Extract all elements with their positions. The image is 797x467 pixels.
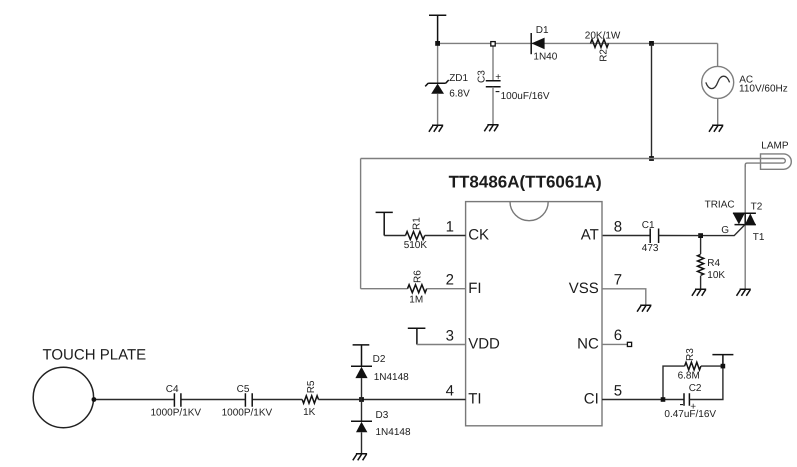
AC source 110V/60Hz	[702, 66, 734, 98]
svg-text:C4: C4	[166, 384, 179, 395]
wire: second rail	[361, 158, 761, 160]
diode D2 1N4148	[351, 366, 372, 399]
node: open square at C3 / top rail	[491, 42, 495, 46]
svg-text:C2: C2	[689, 383, 702, 394]
resistor R5 1K	[302, 396, 318, 404]
svg-text:T2: T2	[751, 202, 763, 213]
touch plate electrode	[33, 367, 93, 427]
svg-text:FI: FI	[468, 280, 481, 297]
ground below C3	[484, 125, 498, 132]
svg-text:D2: D2	[373, 354, 386, 365]
junction node: TI / D2 / D3	[359, 397, 364, 402]
svg-text:R4: R4	[707, 258, 720, 269]
svg-text:G: G	[721, 225, 729, 236]
wire: left branch up to R3	[663, 366, 685, 399]
supply T-bar at R1	[376, 212, 393, 235]
svg-text:1000P/1KV: 1000P/1KV	[222, 408, 273, 419]
svg-text:TI: TI	[468, 391, 481, 408]
wire: pin 6 NC stub	[602, 343, 627, 345]
minus mark C3	[496, 91, 500, 93]
svg-text:C5: C5	[237, 384, 250, 395]
svg-text:NC: NC	[577, 336, 599, 353]
diode D1 1N40	[531, 33, 544, 54]
node: open square NC	[627, 342, 631, 346]
svg-text:110V/60Hz: 110V/60Hz	[739, 84, 788, 95]
wire: pin 5 CI to C2	[602, 399, 684, 401]
svg-text:8: 8	[614, 218, 622, 235]
junction node: CI / C2 / R3 left	[661, 397, 666, 402]
ground below VSS	[637, 305, 651, 312]
svg-text:C3: C3	[477, 70, 488, 83]
svg-text:510K: 510K	[404, 240, 428, 251]
svg-text:LAMP: LAMP	[761, 141, 789, 152]
junction node: drop / second rail	[649, 156, 654, 161]
wire: left vertical to pin 2 row	[360, 159, 362, 289]
svg-text:R5: R5	[306, 380, 317, 393]
wire: pin 3	[417, 344, 466, 346]
resistor R4 10K	[698, 236, 704, 290]
wire: AC source to ground	[717, 98, 719, 125]
ground below ZD1	[429, 125, 443, 132]
supply T-bar at R3/C2	[712, 355, 733, 367]
zener diode ZD1	[425, 43, 449, 125]
wire: C2 right to corner up	[689, 366, 723, 400]
capacitor C4 1000P/1KV	[174, 393, 181, 407]
wire: C5 to C4	[181, 399, 246, 401]
svg-text:100uF/16V: 100uF/16V	[501, 91, 550, 102]
junction node: ZD1 / top rail	[435, 41, 440, 46]
svg-text:3: 3	[446, 327, 454, 344]
svg-text:5: 5	[614, 382, 622, 399]
ground below triac T1	[737, 289, 751, 296]
svg-text:TRIAC: TRIAC	[705, 200, 735, 211]
gate wire to triac	[701, 225, 745, 236]
capacitor C5 1000P/1KV	[245, 393, 252, 407]
capacitor C3	[486, 46, 501, 125]
ground below AC	[709, 125, 723, 132]
svg-text:1M: 1M	[409, 294, 423, 305]
svg-text:TT8486A(TT6061A): TT8486A(TT6061A)	[449, 172, 602, 191]
svg-text:VDD: VDD	[468, 336, 500, 353]
IC U1 TT8486A box	[466, 202, 602, 426]
diode D3 1N4148	[351, 400, 372, 454]
svg-text:R3: R3	[685, 348, 696, 361]
supply T-bar above ZD1	[429, 15, 446, 43]
resistor R6 1M	[361, 285, 466, 293]
svg-text:1N4148: 1N4148	[376, 427, 411, 438]
svg-text:10K: 10K	[707, 270, 725, 281]
node: touch plate terminal dot	[92, 397, 97, 402]
ground below D3	[353, 454, 367, 461]
lamp outer envelope	[761, 154, 792, 169]
svg-text:TOUCH PLATE: TOUCH PLATE	[43, 347, 147, 364]
junction node: R2 / AC / drop wire	[649, 41, 654, 46]
svg-text:1N4148: 1N4148	[374, 372, 409, 383]
svg-text:1K: 1K	[303, 407, 316, 418]
ground below R4	[692, 289, 706, 296]
minus mark C2	[680, 404, 683, 406]
resistor R1 510K	[384, 232, 465, 240]
svg-text:R1: R1	[411, 217, 422, 230]
svg-text:R2: R2	[599, 49, 610, 62]
svg-text:C1: C1	[642, 220, 655, 231]
svg-text:0.47uF/16V: 0.47uF/16V	[664, 409, 716, 420]
junction node: R3 right / T-bar	[721, 364, 726, 369]
svg-text:6.8V: 6.8V	[449, 89, 470, 100]
wire: diode junction to R5	[319, 399, 362, 401]
wire: triac T1 to ground	[744, 225, 746, 290]
wire: top supply rail	[438, 42, 718, 44]
svg-text:CK: CK	[468, 227, 489, 244]
wire: C4 to touch plate	[94, 399, 174, 401]
wire: lamp to triac T2	[744, 165, 746, 213]
capacitor C1 473	[650, 229, 658, 244]
resistor R3 6.8M	[685, 362, 701, 370]
svg-text:+: +	[495, 72, 501, 83]
wire: pin 4 TI to diode junction	[362, 399, 466, 401]
svg-text:1: 1	[446, 218, 454, 235]
svg-text:D1: D1	[536, 25, 549, 36]
svg-text:2: 2	[446, 272, 454, 289]
svg-text:4: 4	[446, 382, 454, 399]
wire: C1 to gate junction	[659, 235, 701, 237]
svg-text:CI: CI	[584, 391, 599, 408]
wire: pin 7 VSS to ground	[602, 289, 646, 305]
wire: top rail corner down to AC source	[717, 43, 719, 66]
wire: R5 to C5	[252, 399, 302, 401]
svg-text:T1: T1	[753, 232, 765, 243]
resistor R2	[591, 39, 609, 47]
svg-text:ZD1: ZD1	[449, 73, 468, 84]
svg-text:7: 7	[614, 272, 622, 289]
svg-text:1000P/1KV: 1000P/1KV	[151, 408, 202, 419]
svg-text:VSS: VSS	[569, 280, 599, 297]
svg-text:D3: D3	[376, 410, 389, 421]
svg-text:R6: R6	[412, 270, 423, 283]
svg-text:AT: AT	[581, 227, 599, 244]
wire: pin 8 to C1	[602, 235, 650, 237]
svg-text:20K/1W: 20K/1W	[585, 30, 621, 41]
wire: drop from top rail to second rail	[651, 43, 653, 158]
svg-text:473: 473	[642, 243, 659, 254]
svg-text:6: 6	[614, 327, 622, 344]
wire: R3 to right junction	[701, 365, 723, 367]
triac T2/T1	[733, 213, 756, 224]
capacitor C2 0.47uF	[684, 393, 689, 405]
svg-text:1N40: 1N40	[533, 52, 557, 63]
junction node: gate / R4 / C1	[698, 233, 703, 238]
supply T-bar at pin 3 VDD	[408, 328, 426, 344]
svg-text:6.8M: 6.8M	[678, 370, 700, 381]
supply T-bar above D2	[353, 345, 370, 366]
lamp inner filament loop	[745, 158, 785, 167]
